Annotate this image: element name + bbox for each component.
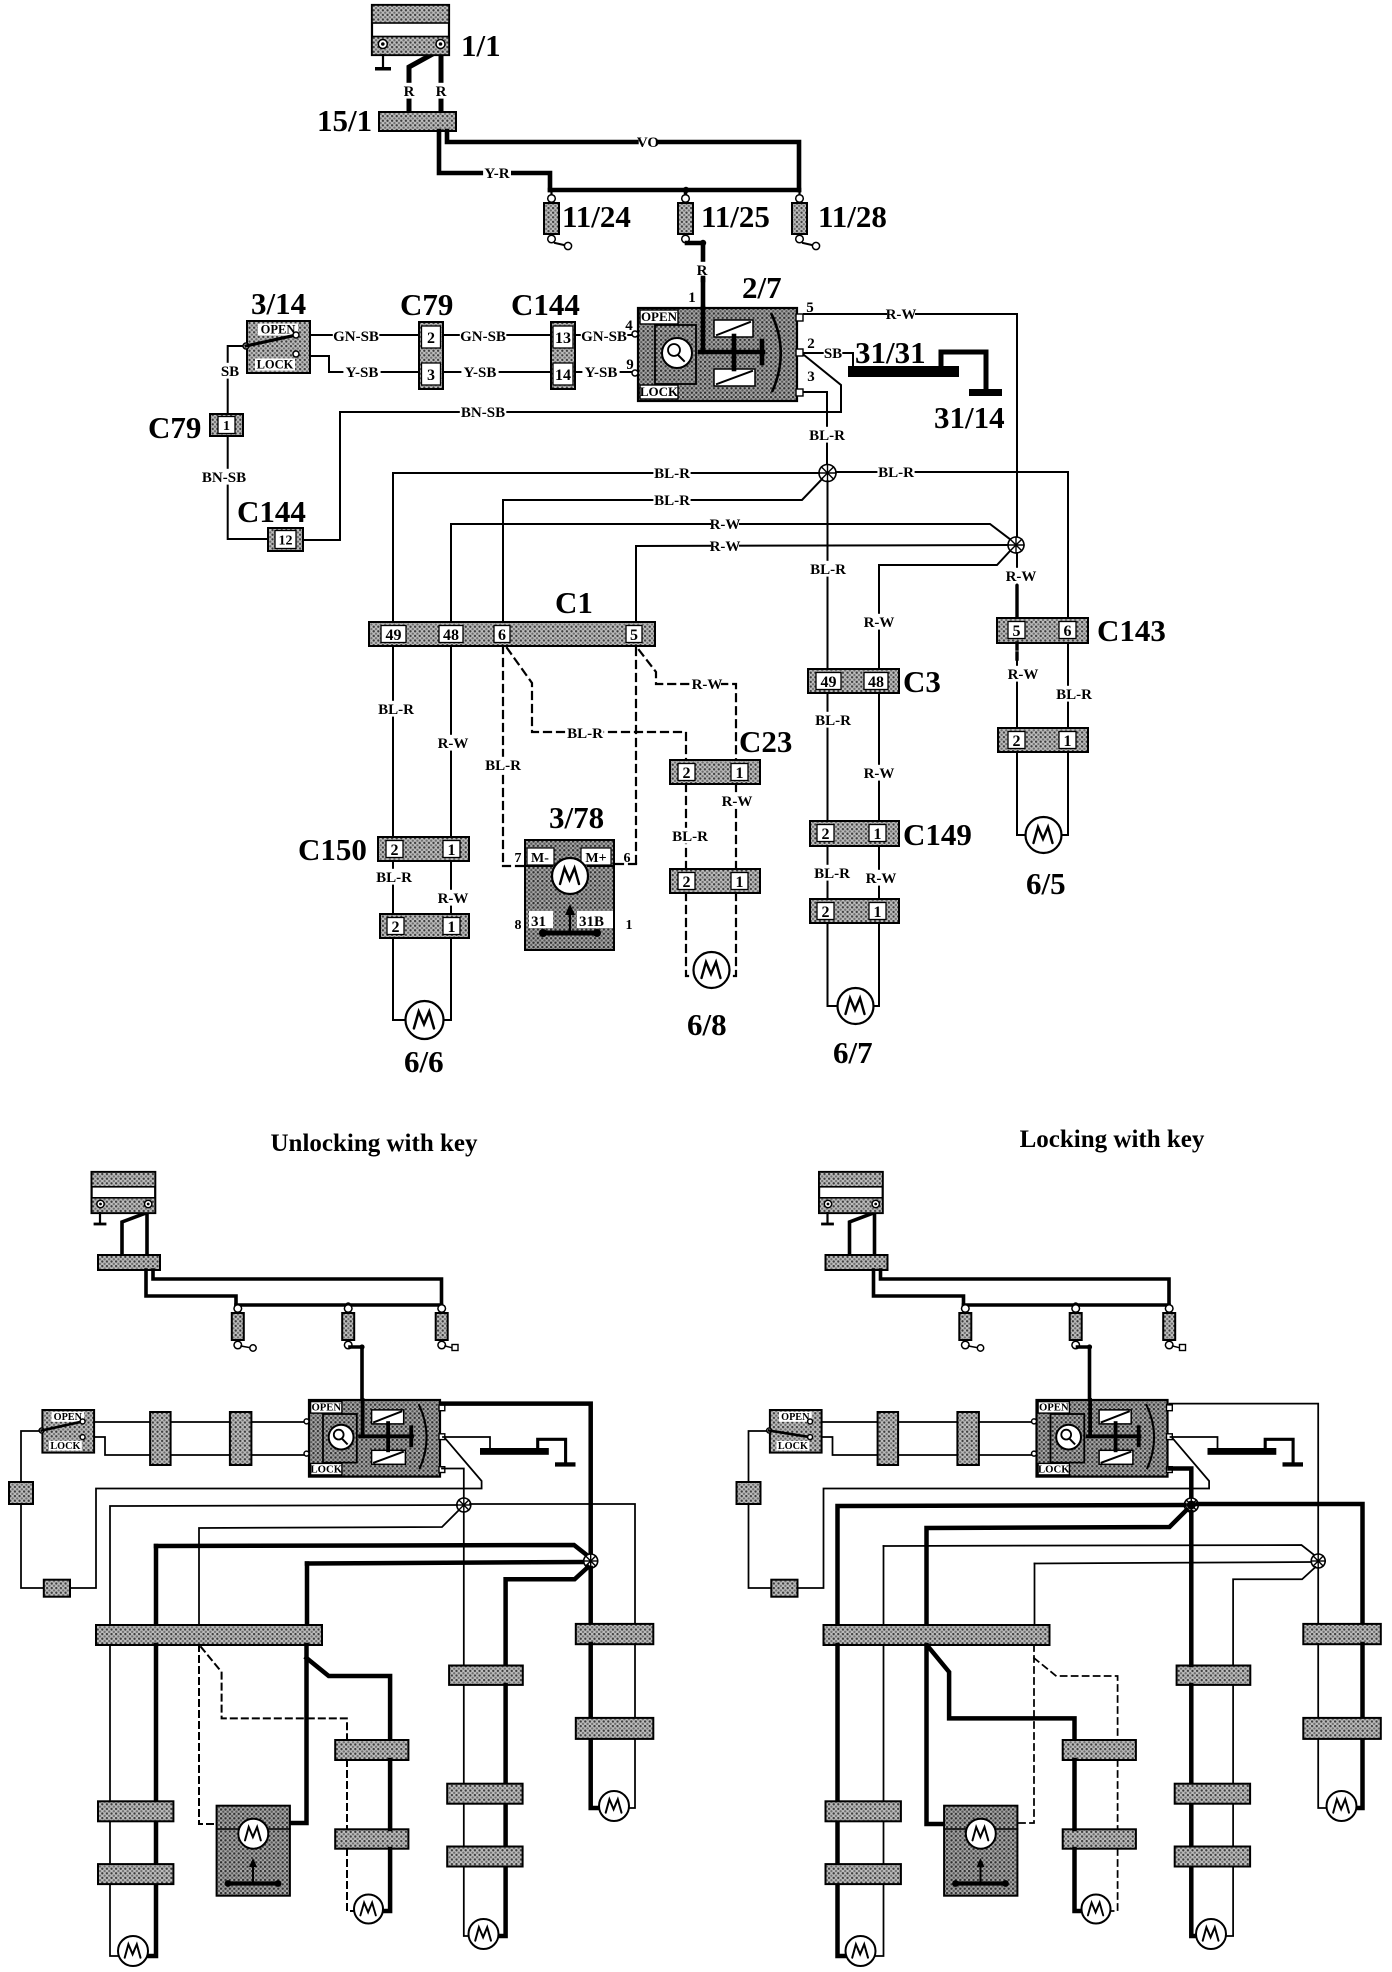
- connector C149 small: [1175, 1784, 1250, 1804]
- wire C1 pin49 to motor 6/6 small: [109, 1645, 111, 1801]
- svg-text:R-W: R-W: [886, 307, 917, 323]
- junction1 branch to C1 pin6 small: [199, 1510, 459, 1626]
- svg-text:6/7: 6/7: [833, 1035, 873, 1070]
- svg-text:OPEN: OPEN: [261, 323, 296, 337]
- connector box small pin12: [44, 1580, 70, 1597]
- fuse small 2: [344, 1305, 352, 1313]
- wire junction2 down to C143 pin5 small: [1317, 1568, 1319, 1624]
- fuse small 1: [962, 1305, 970, 1313]
- svg-text:49: 49: [386, 627, 402, 644]
- wire C1 pin5 to 3/78 pin6 small: [1018, 1645, 1035, 1823]
- inline connector small A: [878, 1412, 899, 1465]
- svg-text:BL-R: BL-R: [672, 829, 708, 845]
- motor 6/6 small: [846, 1936, 876, 1966]
- svg-text:2: 2: [683, 765, 691, 782]
- motor 6/7 small: [469, 1919, 499, 1949]
- svg-text:C143: C143: [1097, 613, 1166, 648]
- motor 6/8 small: [1082, 1895, 1111, 1924]
- wire BN-SB from C79-1 to C144-12: [228, 436, 268, 539]
- wire pin3 to junction1 small: [442, 1469, 464, 1498]
- svg-text:1: 1: [1064, 733, 1072, 750]
- connector C150 small: [826, 1801, 901, 1821]
- wire switch to relay pin 4 small: [821, 1421, 1037, 1423]
- wire R to relay pin 1 small: [350, 1347, 362, 1402]
- pigtail at fuse 11/24: [555, 243, 564, 245]
- wire label R right: [436, 83, 445, 99]
- svg-text:M-: M-: [531, 851, 549, 866]
- svg-text:Y-R: Y-R: [484, 166, 509, 182]
- wire SB to ground small: [1171, 1437, 1218, 1448]
- ground 31/31 31/14 small: [480, 1448, 549, 1455]
- wire junction2 to C3 pin48 small: [1233, 1567, 1315, 1665]
- svg-text:31/14: 31/14: [934, 400, 1005, 435]
- connector C23b small: [335, 1829, 408, 1848]
- svg-text:6/8: 6/8: [687, 1007, 727, 1042]
- connector C149b small: [1175, 1847, 1250, 1867]
- wire R to relay pin 1 small: [1078, 1347, 1090, 1402]
- svg-text:11/25: 11/25: [701, 199, 770, 234]
- wire Y-SB from C79 to C144: [443, 371, 551, 373]
- svg-text:11/24: 11/24: [562, 199, 631, 234]
- svg-text:8: 8: [515, 918, 522, 933]
- connector below C23: [670, 869, 760, 893]
- fuse 11/25: [682, 195, 690, 203]
- connector C3 small: [449, 1666, 523, 1685]
- svg-text:6: 6: [498, 627, 506, 644]
- wire SB from key switch 3/14 to connector C79 pin 1: [228, 346, 245, 414]
- wire BL-R dashed from C1 pin 6 to 3/78 pin 7: [502, 646, 504, 866]
- wire C143 pin6 to motor 6/5 small: [629, 1644, 635, 1808]
- motor inside 3/78 small: [944, 1828, 967, 1830]
- svg-text:2: 2: [683, 874, 691, 891]
- svg-text:LOCK: LOCK: [778, 1441, 808, 1452]
- wire VO from 15/1 to fuse bus: [447, 131, 799, 190]
- battery 1/1: [372, 5, 449, 55]
- svg-text:1: 1: [874, 826, 882, 843]
- svg-text:4: 4: [625, 318, 633, 334]
- connector C143 small: [576, 1624, 654, 1644]
- wire BL-R from C3 pin 49 to C149: [827, 693, 829, 821]
- wire junction2 to C3 pin48 small: [506, 1567, 588, 1665]
- ground at battery small: [99, 1213, 101, 1223]
- svg-text:1: 1: [448, 919, 456, 936]
- wire R-W dashed from C1 pin 5 to C23 pin 1: [639, 650, 736, 760]
- svg-text:1: 1: [223, 419, 230, 434]
- svg-text:BL-R: BL-R: [654, 466, 690, 482]
- wire R from battery small: [850, 1213, 874, 1255]
- svg-text:BL-R: BL-R: [1056, 687, 1092, 703]
- wire SB from key switch small: [21, 1431, 44, 1482]
- motor inside 3/78 small: [217, 1828, 240, 1830]
- junction2 small: [584, 1554, 598, 1568]
- svg-text:OPEN: OPEN: [311, 1402, 341, 1414]
- wire label R left: [404, 83, 413, 99]
- fuse small 3: [438, 1305, 446, 1313]
- junction2 small: [1311, 1554, 1325, 1568]
- wire C143 pin5 to motor 6/5 small: [1317, 1644, 1319, 1718]
- connector box small pin1: [9, 1482, 33, 1504]
- connector C143: [997, 618, 1088, 643]
- connector C150b small: [826, 1864, 901, 1884]
- wire R-W dashed from C1 pin 5 to 3/78 pin 6: [635, 648, 637, 864]
- svg-text:GN-SB: GN-SB: [333, 329, 379, 345]
- connector C3: [808, 669, 899, 693]
- wires to motor 6/6: [393, 938, 406, 1020]
- relay 15/1 small: [826, 1255, 888, 1270]
- svg-text:C144: C144: [237, 494, 306, 529]
- connector C143b small: [1303, 1718, 1381, 1739]
- svg-text:2: 2: [822, 826, 830, 843]
- wire C1 pin48 to motor 6/6 small: [875, 1645, 884, 1956]
- wire R-W from junction B to C3 pin 48: [879, 551, 1010, 669]
- svg-text:LOCK: LOCK: [50, 1441, 80, 1452]
- connector below C143: [998, 728, 1088, 752]
- svg-text:BL-R: BL-R: [878, 465, 914, 481]
- svg-text:Y-SB: Y-SB: [585, 365, 618, 381]
- wire R from battery small: [122, 1213, 146, 1255]
- svg-text:3/14: 3/14: [251, 286, 306, 321]
- wire BL-R below C143 pin 6: [1067, 643, 1069, 728]
- selector arrow 3/78 small: [252, 1862, 254, 1884]
- relay 15/1: [379, 112, 456, 131]
- svg-text:R-W: R-W: [1008, 667, 1039, 683]
- wire junction2 down to C143 pin5 small: [588, 1568, 593, 1624]
- svg-text:31/31: 31/31: [855, 335, 926, 370]
- motor 6/8: [694, 952, 730, 988]
- connector C1 small: [824, 1625, 1050, 1645]
- battery small: [92, 1172, 156, 1213]
- wire C1 pin5 to junction2 small: [305, 1564, 310, 1627]
- lock motor unit 3/78 small: [944, 1806, 1017, 1896]
- connector C150: [378, 837, 469, 861]
- svg-text:R-W: R-W: [1006, 569, 1037, 585]
- ground 31/31 31/14: [848, 366, 959, 377]
- wire BL-R right from junction to C143 pin 6: [836, 472, 1068, 618]
- svg-text:BL-R: BL-R: [654, 493, 690, 509]
- svg-text:C150: C150: [298, 832, 367, 867]
- svg-text:6/5: 6/5: [1026, 866, 1066, 901]
- wire GN-SB from C79 to C144: [443, 334, 551, 336]
- battery small: [819, 1172, 883, 1213]
- connector C79 pins 2 and 3: [419, 322, 443, 389]
- wires to motor 6/5: [1017, 752, 1026, 835]
- ground at battery small: [826, 1213, 828, 1223]
- wire R right from battery 1/1 to relay box 15/1: [439, 48, 444, 112]
- connector C143 small: [1303, 1624, 1381, 1644]
- motor 6/7: [838, 988, 874, 1024]
- wire Y-R small: [146, 1270, 236, 1305]
- relay central locking small: [309, 1400, 440, 1477]
- inline connector small A: [150, 1412, 171, 1465]
- wire C1 pin48 to motor 6/6 small: [147, 1645, 156, 1956]
- svg-text:OPEN: OPEN: [1039, 1402, 1069, 1414]
- wire R-W below C143 pin 5: [1015, 643, 1018, 660]
- junction node B rw: [1008, 537, 1024, 553]
- wire fuse taps: [550, 190, 552, 199]
- wire R-W from pin 5 down right side: [804, 314, 1017, 537]
- wire BL-R from pin 3 to junction: [804, 392, 827, 465]
- connector C23: [670, 760, 760, 784]
- motor 6/7 small: [1196, 1919, 1226, 1949]
- svg-text:R-W: R-W: [438, 891, 469, 907]
- svg-text:R: R: [404, 84, 415, 100]
- wire BL-R from junction A down to C3 pin 49: [827, 481, 829, 669]
- wire Y-SB from 3/14 to C79: [296, 356, 419, 372]
- fuse 11/28: [796, 195, 804, 203]
- motor 6/8 small: [354, 1895, 383, 1924]
- svg-text:R-W: R-W: [692, 677, 723, 693]
- svg-text:15/1: 15/1: [317, 103, 372, 138]
- connector C1: [369, 622, 655, 646]
- wire pin5 to junction2 small: [1170, 1404, 1319, 1554]
- svg-text:C79: C79: [400, 287, 453, 322]
- svg-text:OPEN: OPEN: [781, 1412, 810, 1423]
- selector arrow inside 3/78: [569, 910, 571, 934]
- wire R left diagonal from battery 1/1: [409, 51, 438, 112]
- svg-text:2: 2: [807, 336, 815, 352]
- pigtail fuse small 1: [969, 1346, 977, 1348]
- motor inside 3/78: [525, 865, 552, 867]
- svg-text:12: 12: [279, 534, 293, 549]
- svg-text:BL-R: BL-R: [809, 428, 845, 444]
- svg-text:3/78: 3/78: [549, 800, 604, 835]
- wire C1 pin6 branch to C23 pin2 small: [929, 1647, 1075, 1740]
- svg-text:C149: C149: [903, 817, 972, 852]
- svg-text:LOCK: LOCK: [257, 358, 294, 372]
- fuse 11/24: [548, 195, 556, 203]
- wire pin3 to junction1 small: [1170, 1469, 1192, 1498]
- selector bar 3/78 small: [228, 1881, 278, 1885]
- relay central locking small: [1037, 1400, 1168, 1477]
- svg-text:2: 2: [822, 904, 830, 921]
- svg-text:BL-R: BL-R: [815, 713, 851, 729]
- wire R into relay 2/7 pin 1: [701, 278, 706, 310]
- svg-text:C144: C144: [511, 287, 580, 322]
- svg-text:R-W: R-W: [722, 794, 753, 810]
- selector bar 3/78 small: [956, 1881, 1006, 1885]
- motor 6/6: [406, 1001, 444, 1039]
- connector C143b small: [576, 1718, 654, 1739]
- wire SB from key switch small: [749, 1431, 772, 1482]
- svg-text:14: 14: [555, 367, 571, 384]
- junction1 small: [1184, 1498, 1198, 1512]
- motor 6/5 small: [1327, 1791, 1357, 1821]
- svg-text:31B: 31B: [579, 914, 604, 930]
- wire BL-R branch from junction to C1 pin 6: [503, 479, 822, 622]
- svg-text:1: 1: [448, 842, 456, 859]
- junction1 small: [457, 1498, 471, 1512]
- svg-text:BL-R: BL-R: [567, 726, 603, 742]
- motor 6/6 small: [118, 1936, 148, 1966]
- svg-text:VO: VO: [637, 135, 659, 151]
- wire R-W from C1 pin 5 to junction B: [635, 546, 637, 622]
- wire BL-R dashed from C1 pin 6 to C23 pin 2: [507, 648, 686, 760]
- svg-text:3: 3: [807, 369, 815, 385]
- key switch 3/14: [247, 321, 310, 373]
- svg-text:11/28: 11/28: [818, 199, 887, 234]
- connector below C149: [810, 899, 899, 923]
- svg-text:5: 5: [630, 627, 638, 644]
- wire switch to relay pin 4 small: [93, 1421, 309, 1423]
- wire SB from pin 2 to ground 31/31: [804, 353, 853, 366]
- svg-text:R: R: [436, 84, 447, 100]
- svg-text:48: 48: [443, 627, 459, 644]
- wire VO small: [153, 1270, 442, 1305]
- wire C1 pin5 branch to C23 pin1 small: [307, 1658, 391, 1740]
- wire C1 pin6 to 3/78 pin7 small: [927, 1645, 944, 1824]
- junction1 right wire to C143 pin6 small: [470, 1504, 635, 1624]
- fuse bus small: [236, 1303, 442, 1307]
- wire switch to relay pin 9 small: [95, 1437, 309, 1455]
- svg-text:BL-R: BL-R: [378, 702, 414, 718]
- junction1 right wire to C143 pin6 small: [1198, 1504, 1363, 1624]
- pigtail fuse small 3: [1173, 1346, 1179, 1348]
- svg-text:2: 2: [392, 919, 400, 936]
- svg-text:LOCK: LOCK: [1038, 1464, 1070, 1476]
- wire C1 pin49 to motor 6/6 small: [835, 1645, 840, 1801]
- svg-text:BN-SB: BN-SB: [461, 405, 505, 421]
- connector C149b small: [447, 1847, 522, 1867]
- wire C1 pin5 to 3/78 pin6 small: [290, 1645, 307, 1823]
- svg-text:Y-SB: Y-SB: [346, 365, 379, 381]
- svg-text:C23: C23: [739, 724, 792, 759]
- key switch small: [770, 1410, 822, 1453]
- svg-text:6: 6: [1064, 623, 1072, 640]
- pigtail at fuse 11/28: [803, 243, 812, 245]
- wire R-W from junction B down to C143 pin 5: [1016, 553, 1018, 586]
- svg-text:1: 1: [626, 918, 633, 933]
- svg-text:C79: C79: [148, 410, 201, 445]
- wire C143 pin6 to motor 6/5 small: [1357, 1644, 1363, 1808]
- connector box small pin12: [771, 1580, 797, 1597]
- svg-text:31: 31: [531, 914, 546, 930]
- wire GN-SB from C144 to relay 2/7 pin 4: [575, 334, 631, 336]
- svg-text:C1: C1: [555, 585, 593, 620]
- wire VO small: [881, 1270, 1170, 1305]
- wire BL-R below C150: [392, 861, 394, 914]
- svg-text:Y-SB: Y-SB: [464, 365, 497, 381]
- motor 6/5 small: [599, 1791, 629, 1821]
- wire C1 pin6 to 3/78 pin7 small: [199, 1645, 216, 1824]
- svg-text:49: 49: [821, 674, 837, 691]
- connector C23 small: [335, 1740, 408, 1760]
- svg-text:BN-SB: BN-SB: [202, 470, 246, 486]
- svg-text:Locking with key: Locking with key: [1020, 1126, 1205, 1153]
- svg-text:M+: M+: [585, 851, 606, 866]
- inline connector small B: [957, 1412, 979, 1465]
- wires C23 to motor 6/8 small: [346, 1760, 348, 1829]
- pigtail fuse small 1: [241, 1346, 249, 1348]
- wire R-W from C1 pin 48 to C150: [450, 646, 452, 837]
- junction1 branch to C1 pin6 small: [927, 1510, 1187, 1626]
- svg-text:2: 2: [427, 330, 435, 347]
- wire R-W from C1 pin 48 to junction B: [450, 524, 452, 622]
- wire C1 pin5 branch to C23 pin1 small: [1034, 1658, 1118, 1740]
- svg-text:1: 1: [688, 290, 696, 306]
- connector C149 small: [447, 1784, 522, 1804]
- wire C143 pin5 to motor 6/5 small: [588, 1644, 593, 1718]
- connector C23 small: [1063, 1740, 1136, 1760]
- svg-text:R-W: R-W: [710, 539, 741, 555]
- wire R from fuse 11/25 to relay 2/7 pin 1: [687, 243, 703, 280]
- connector C144 pins 13 and 14: [551, 322, 575, 389]
- wire BL-R dashed below C23 pin 2: [685, 784, 687, 869]
- connector C23b small: [1063, 1829, 1136, 1848]
- wire pin5 to junction2 small: [442, 1404, 591, 1554]
- wire C1 pin5 to junction2 small: [1034, 1564, 1036, 1627]
- wires C23 to motor 6/8 small: [1072, 1760, 1077, 1829]
- svg-text:6: 6: [624, 851, 631, 866]
- wire BN-SB small lower: [21, 1504, 44, 1588]
- fuse bus small: [964, 1303, 1170, 1307]
- svg-text:3: 3: [427, 367, 435, 384]
- relay 15/1 small: [98, 1255, 160, 1270]
- svg-text:SB: SB: [824, 346, 842, 362]
- selector arrow 3/78 small: [980, 1862, 982, 1884]
- svg-text:BL-R: BL-R: [810, 562, 846, 578]
- wire SB to ground small: [443, 1437, 490, 1448]
- ground 31/31 31/14 small: [1208, 1448, 1277, 1455]
- svg-text:SB: SB: [221, 364, 239, 380]
- svg-text:C3: C3: [903, 664, 941, 699]
- connector C3 small: [1177, 1666, 1251, 1685]
- fuse small 3: [1165, 1305, 1173, 1313]
- connector C79 pin 1 box: [210, 414, 243, 436]
- fuse small 2: [1072, 1305, 1080, 1313]
- svg-text:R-W: R-W: [438, 736, 469, 752]
- connector C1 small: [96, 1625, 322, 1645]
- wire C1 pin48 to junction2 small: [154, 1546, 159, 1626]
- lock motor unit 3/78 small: [217, 1806, 290, 1896]
- connector box small pin1: [737, 1482, 761, 1504]
- svg-text:R-W: R-W: [710, 517, 741, 533]
- svg-text:BL-R: BL-R: [485, 758, 521, 774]
- wire BL-R left from junction to C1 pin 49: [393, 473, 819, 622]
- selector bar inside 3/78: [543, 931, 597, 936]
- wire switch to relay pin 9 small: [823, 1437, 1037, 1455]
- svg-text:Unlocking with key: Unlocking with key: [271, 1130, 478, 1157]
- wire BN-SB small lower: [749, 1504, 772, 1588]
- wire BN-SB small to relay pin 2: [798, 1437, 1210, 1588]
- pigtail fuse small 3: [445, 1346, 451, 1348]
- wire C3 pin49 to motor 6/7 small: [463, 1512, 465, 1665]
- svg-text:7: 7: [515, 851, 522, 866]
- svg-text:GN-SB: GN-SB: [581, 329, 627, 345]
- labels 31 and 31B inside 3/78: [529, 911, 553, 928]
- svg-text:2/7: 2/7: [742, 270, 782, 305]
- wire C3 pin49 to motor 6/7 small: [1189, 1512, 1194, 1665]
- wire Y-R small: [874, 1270, 964, 1305]
- svg-text:GN-SB: GN-SB: [460, 329, 506, 345]
- svg-text:48: 48: [868, 674, 884, 691]
- wire BN-SB small to relay pin 2: [70, 1437, 482, 1588]
- svg-text:LOCK: LOCK: [311, 1464, 343, 1476]
- wires below C149: [827, 846, 829, 899]
- wire R-W below C150: [450, 861, 452, 914]
- inline connector small B: [230, 1412, 252, 1465]
- wire Y-R from 15/1: [439, 131, 550, 190]
- svg-text:1: 1: [736, 874, 744, 891]
- wire C1 pin48 to junction2 small: [883, 1546, 885, 1626]
- svg-text:R-W: R-W: [864, 615, 895, 631]
- junction1 left wire to C1 pin49 small: [838, 1505, 1185, 1626]
- svg-text:5: 5: [1013, 623, 1021, 640]
- junction node A blr: [819, 465, 836, 482]
- svg-text:1/1: 1/1: [461, 28, 501, 63]
- connector C150 small: [98, 1801, 173, 1821]
- wires dashed to motor 6/8: [686, 893, 694, 976]
- ground at battery 1/1: [382, 55, 384, 67]
